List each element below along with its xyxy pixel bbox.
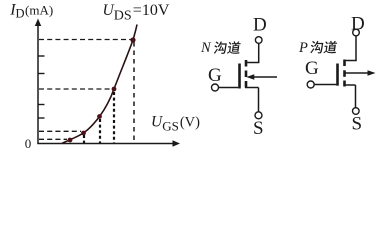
svg-text:G: G xyxy=(305,58,319,79)
svg-text:D: D xyxy=(253,15,267,36)
svg-text:0: 0 xyxy=(25,136,32,151)
svg-text:S: S xyxy=(352,114,363,135)
svg-text:N: N xyxy=(200,40,212,56)
svg-text:P: P xyxy=(298,40,308,56)
svg-text:S: S xyxy=(253,118,264,139)
svg-text:G: G xyxy=(208,65,222,86)
